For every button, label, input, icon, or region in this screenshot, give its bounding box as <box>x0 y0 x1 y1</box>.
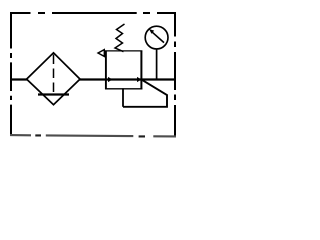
regulator R1: flow arrowhead left <box>108 77 113 82</box>
enclosure boundary bottom dots <box>35 135 145 136</box>
regulator R1: body square (sides darker, top/bottom lighter) <box>105 51 107 90</box>
regulator R1: flow arrowhead right <box>137 77 142 82</box>
gauge G1: needle arrowhead <box>149 29 154 34</box>
enclosure boundary top (dash-dot) <box>11 12 176 14</box>
filter F1: element (dashed vertical line) <box>53 55 55 95</box>
wire: gauge stem <box>156 49 158 80</box>
regulator R1: spring <box>115 24 125 52</box>
gauge G1: needle <box>152 32 164 43</box>
enclosure boundary left (dash-dot) <box>10 12 12 136</box>
enclosure boundary bottom (dash-dot, slightly sloped and lighter) <box>10 135 176 136</box>
enclosure boundary right (dash-dot) <box>174 12 176 136</box>
regulator R1: pilot stub <box>122 88 124 107</box>
regulator R1: adjustment arrowhead <box>98 50 104 57</box>
filter F1: separator baffle line <box>38 93 69 95</box>
filter F1: diamond body <box>27 53 80 105</box>
regulator R1: vent/feedback path <box>123 80 167 107</box>
gauge G1: dial circle <box>145 26 168 49</box>
wire: main flow line <box>10 78 175 80</box>
